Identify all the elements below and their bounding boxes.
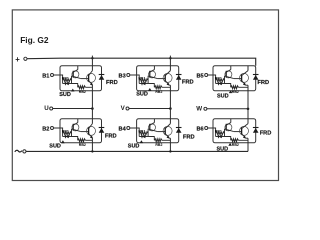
label SUD (cell B2) [49, 140, 64, 149]
terminal W (phase output) [196, 105, 207, 112]
wire main emitter (cell B1) [91, 84, 93, 86]
svg-text:RB2: RB2 [155, 143, 162, 147]
svg-text:B5: B5 [196, 73, 203, 79]
resistor RB1 (cell B5) [215, 77, 225, 82]
wire driver collector to box top (cell B4) [153, 119, 155, 123]
main transistor (cell B5) [240, 71, 249, 86]
svg-text:Fig. G2: Fig. G2 [20, 35, 49, 45]
svg-text:W: W [196, 105, 202, 112]
wire base rail (cell B2) [62, 128, 64, 137]
wire cell emitter to - bus [247, 143, 249, 152]
label SUD (cell B3) [136, 88, 151, 97]
svg-text:FRD: FRD [257, 80, 269, 86]
wire driver emitter to main base (cell B4) [157, 131, 165, 133]
wire base rail (cell B4) [138, 128, 140, 137]
wire base B2 [54, 127, 63, 129]
resistor RB2 (cell B4) [148, 137, 170, 147]
wire emitter drop (cell B4) [169, 138, 171, 143]
node junction phase V [169, 107, 172, 110]
driver transistor (cell B5) [225, 70, 234, 79]
svg-text:RB2: RB2 [232, 143, 239, 147]
module outline box (cell B3) [137, 66, 179, 91]
wire + bus (top rail) [27, 58, 256, 65]
wire base B4 [130, 127, 139, 129]
resistor RB1 (cell B1) [62, 77, 72, 82]
svg-text:RB2: RB2 [79, 90, 86, 94]
terminal B4 [119, 126, 130, 132]
wire U phase vertical (upper emitter / lower collector) [91, 91, 93, 119]
wire phase W [207, 108, 248, 110]
resistor RB2 (cell B2) [72, 137, 93, 147]
svg-text:RB2: RB2 [232, 90, 239, 94]
free-wheeling diode FRD (cell B3) [176, 75, 182, 80]
module outline box (cell B2) [60, 119, 102, 143]
main transistor (cell B4) [163, 124, 172, 139]
wire V phase vertical (upper emitter / lower collector) [169, 91, 171, 119]
driver transistor (cell B3) [149, 70, 158, 79]
speed-up diode SUD (cell B4) [139, 135, 148, 138]
svg-text:+: + [15, 55, 20, 64]
wire cell emitter to - bus [169, 143, 171, 152]
wire W phase vertical (upper emitter / lower collector) [247, 91, 249, 119]
label SUD (cell B1) [59, 89, 74, 98]
wire driver emitter to main base (cell B3) [157, 78, 165, 80]
free-wheeling diode FRD (cell B5) [253, 75, 259, 80]
wire driver emitter to main base (cell B1) [81, 78, 89, 80]
label SUD (cell B4) [128, 140, 143, 149]
node junction phase U [91, 107, 94, 110]
wire driver collector to box top (cell B2) [77, 119, 79, 123]
free-wheeling diode FRD (cell B4) [176, 128, 182, 133]
wire base B1 [54, 74, 63, 76]
wire base network to driver (cell B5) [225, 76, 227, 83]
svg-text:B4: B4 [119, 126, 127, 132]
wire collector drop (cell B5) [247, 66, 249, 71]
speed-up diode SUD (cell B3) [139, 82, 148, 85]
wire driver emitter to main base (cell B2) [81, 131, 89, 133]
wire base network to driver (cell B3) [148, 76, 150, 83]
svg-text:SUD: SUD [128, 144, 140, 150]
terminal B1 [42, 73, 53, 79]
terminal V (phase output) [121, 105, 129, 112]
speed-up diode SUD (cell B1) [63, 82, 72, 85]
resistor RB1 (cell B2) [62, 130, 72, 135]
label SUD (cell B6) [217, 143, 232, 152]
svg-text:RB2: RB2 [155, 90, 162, 94]
terminal B2 [42, 126, 53, 132]
module outline box (cell B5) [213, 66, 256, 91]
free-wheeling diode FRD (cell B2) [99, 128, 105, 133]
wire emitter drop (cell B1) [91, 85, 93, 91]
wire driver collector to box top (cell B1) [77, 66, 79, 70]
node junction bus/B4 emitter [169, 150, 171, 152]
wire base B6 [208, 127, 216, 129]
wire main emitter (cell B2) [91, 137, 93, 139]
wire base network to driver (cell B6) [225, 129, 227, 136]
module outline box (cell B6) [213, 119, 256, 143]
free-wheeling diode FRD (cell B1) [99, 75, 105, 80]
svg-text:SUD: SUD [136, 91, 148, 97]
wire main emitter (cell B4) [169, 137, 170, 139]
node junction bus/B3 collector [169, 56, 171, 60]
svg-text:B2: B2 [42, 126, 49, 132]
main transistor (cell B1) [87, 71, 96, 86]
wire base network to driver (cell B2) [72, 129, 74, 136]
wire base network to driver (cell B1) [72, 76, 74, 83]
node junction bus/B1 collector [91, 56, 93, 60]
svg-text:B6: B6 [196, 126, 203, 132]
svg-text:FRD: FRD [105, 134, 117, 140]
node junction phase W [247, 108, 250, 111]
resistor RB2 (cell B6) [225, 137, 249, 147]
wire emitter drop (cell B6) [247, 138, 249, 143]
module outline box (cell B4) [137, 119, 179, 143]
terminal - (negative DC bus) [15, 150, 26, 153]
wire phase U [53, 108, 93, 110]
wire emitter drop (cell B3) [169, 85, 171, 91]
terminal B5 [196, 73, 207, 79]
svg-text:SUD: SUD [217, 94, 229, 100]
svg-text:RB2: RB2 [79, 143, 86, 147]
wire collector drop (cell B2) [91, 119, 93, 124]
main transistor (cell B3) [163, 71, 172, 86]
resistor RB1 (cell B4) [138, 130, 148, 135]
wire base B5 [208, 74, 216, 76]
main transistor (cell B2) [87, 124, 96, 139]
wire - bus (bottom rail) [26, 150, 248, 152]
wire bus to B3 cell [169, 58, 171, 65]
terminal B3 [119, 73, 130, 79]
resistor RB2 (cell B5) [225, 84, 249, 94]
driver transistor (cell B2) [72, 123, 81, 132]
driver transistor (cell B4) [149, 123, 158, 132]
wire collector drop (cell B4) [169, 119, 171, 124]
speed-up diode SUD (cell B5) [216, 82, 225, 85]
svg-text:FRD: FRD [106, 80, 118, 86]
driver transistor (cell B6) [225, 123, 234, 132]
svg-text:B3: B3 [119, 73, 126, 79]
wire collector drop (cell B3) [169, 66, 171, 71]
wire base rail (cell B6) [215, 128, 217, 137]
svg-text:U: U [44, 105, 49, 112]
svg-text:FRD: FRD [183, 135, 195, 141]
node junction bus/B2 emitter [91, 150, 93, 152]
free-wheeling diode FRD (cell B6) [253, 128, 259, 133]
wire collector drop (cell B6) [247, 119, 249, 124]
terminal + (positive DC bus) [15, 55, 27, 64]
main transistor (cell B6) [240, 124, 249, 139]
wire driver collector to box top (cell B6) [230, 119, 232, 123]
wire collector drop (cell B1) [91, 66, 93, 71]
wire driver emitter to main base (cell B5) [234, 78, 242, 80]
driver transistor (cell B1) [72, 70, 81, 79]
wire phase V [129, 108, 170, 110]
wire bus to B1 cell [91, 58, 93, 65]
resistor RB2 (cell B3) [148, 84, 170, 94]
wire base network to driver (cell B4) [148, 129, 150, 136]
svg-text:SUD: SUD [59, 92, 71, 98]
wire base rail (cell B5) [215, 75, 217, 84]
wire emitter drop (cell B5) [247, 85, 249, 91]
wire main emitter (cell B3) [169, 84, 170, 86]
svg-text:FRD: FRD [260, 130, 272, 136]
resistor RB1 (cell B6) [215, 130, 225, 135]
svg-text:FRD: FRD [182, 79, 194, 85]
wire driver collector to box top (cell B5) [230, 66, 232, 70]
resistor RB2 (cell B1) [72, 84, 93, 94]
speed-up diode SUD (cell B6) [216, 135, 225, 138]
terminal U (phase output) [44, 105, 53, 112]
wire cell emitter to - bus [91, 143, 93, 152]
wire emitter drop (cell B2) [91, 138, 93, 143]
wire main emitter (cell B6) [246, 137, 248, 139]
resistor RB1 (cell B3) [138, 77, 148, 82]
wire base rail (cell B3) [138, 75, 140, 84]
wire base B3 [130, 74, 139, 76]
figure border frame [12, 10, 278, 181]
wire driver collector to box top (cell B3) [153, 66, 155, 70]
wire driver emitter to main base (cell B6) [234, 131, 242, 133]
speed-up diode SUD (cell B2) [63, 135, 72, 138]
terminal B6 [196, 126, 207, 132]
module outline box (cell B1) [60, 66, 102, 91]
svg-text:B1: B1 [42, 73, 49, 79]
wire base rail (cell B1) [62, 75, 64, 84]
label SUD (cell B5) [217, 90, 232, 99]
svg-text:SUD: SUD [49, 144, 61, 150]
wire main emitter (cell B5) [246, 84, 248, 86]
